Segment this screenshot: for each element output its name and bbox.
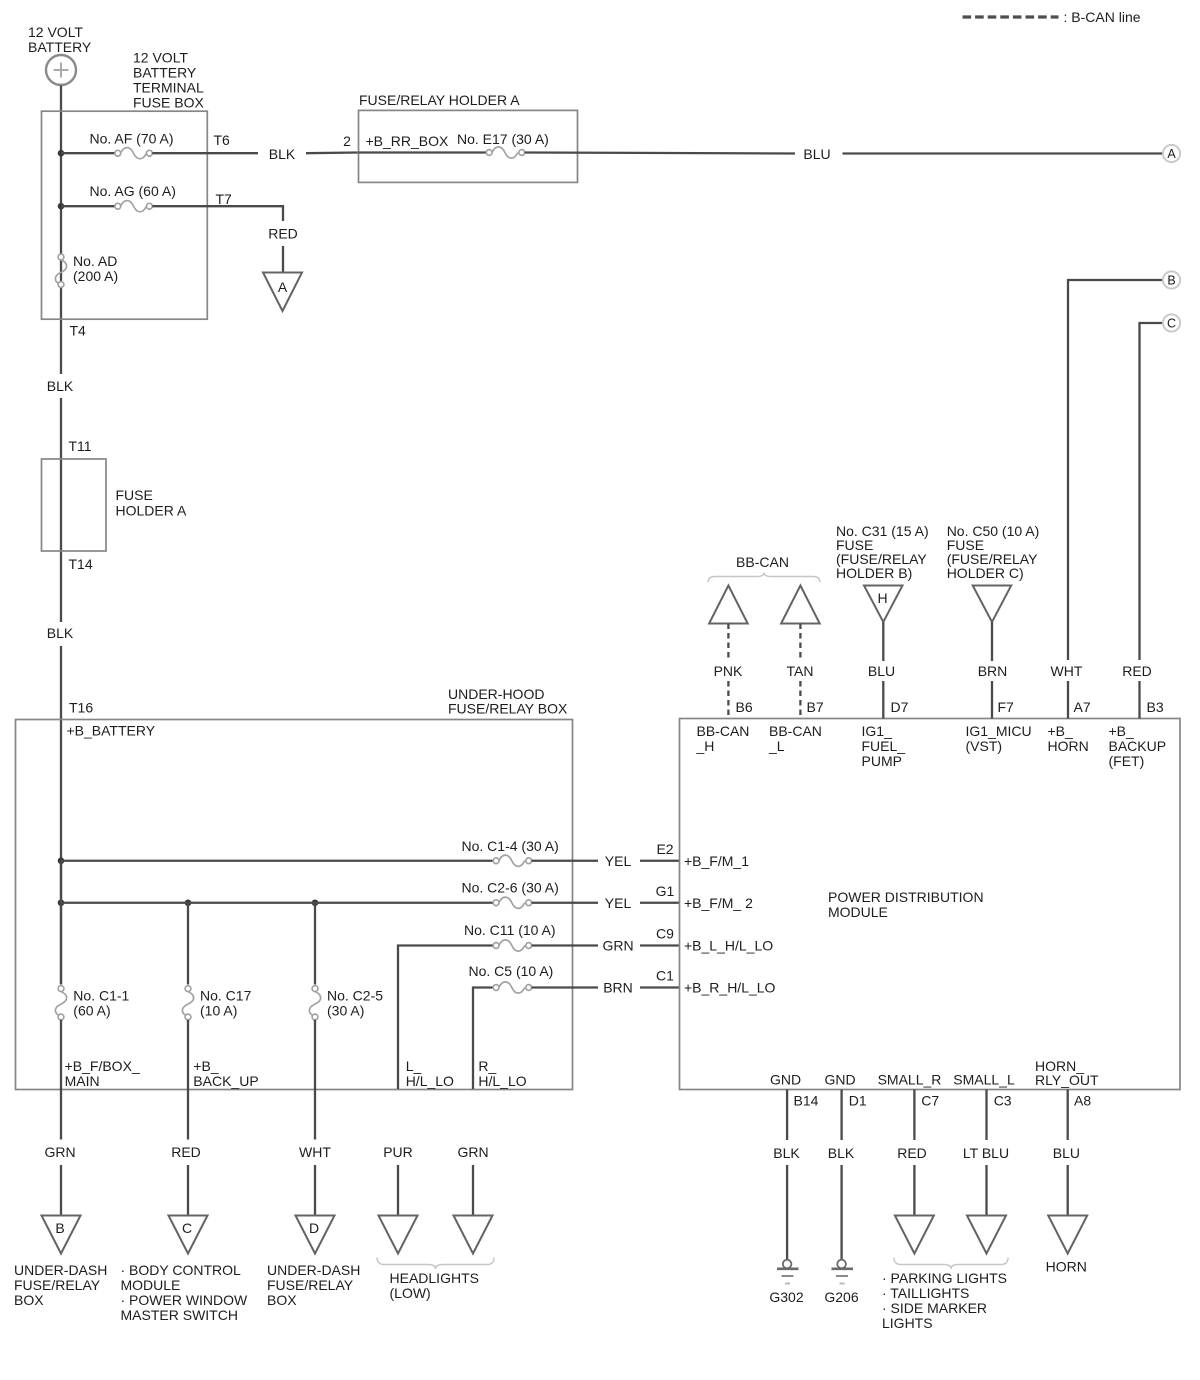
- fuse No. C2-6 (30 A): [462, 880, 559, 909]
- fuse/relay holder A box: [359, 110, 578, 182]
- wire 1 to fuse C1-4: [61, 860, 493, 862]
- svg-text:BATTERY: BATTERY: [28, 39, 92, 55]
- svg-text:T11: T11: [69, 438, 92, 454]
- node junction wire2 at main: [58, 899, 65, 906]
- svg-text:G302: G302: [769, 1289, 803, 1305]
- svg-text:BRN: BRN: [603, 980, 633, 996]
- arrow parking left: [967, 1216, 1006, 1254]
- svg-text:FUSE/RELAY HOLDER A: FUSE/RELAY HOLDER A: [359, 92, 520, 108]
- svg-text:RED: RED: [897, 1145, 927, 1161]
- wire YEL to PDM pin E2: [640, 860, 680, 862]
- svg-text:No. C17: No. C17: [200, 988, 252, 1004]
- fuse No. C5 (10 A): [469, 963, 554, 993]
- svg-text:HOLDER C): HOLDER C): [947, 565, 1024, 581]
- svg-text:C7: C7: [921, 1093, 939, 1109]
- legend dashed B-CAN line: [963, 15, 1059, 18]
- fuse holder A small box: [42, 459, 107, 551]
- svg-text:H/L_LO: H/L_LO: [478, 1073, 526, 1089]
- svg-text:T16: T16: [69, 700, 93, 716]
- wire BLU to circle A: [843, 152, 1164, 154]
- svg-text:R_: R_: [478, 1058, 496, 1074]
- wire SMALL_R C7: [913, 1090, 915, 1141]
- svg-text:G1: G1: [656, 883, 675, 899]
- connector circle A: [1163, 145, 1180, 162]
- svg-text:BLK: BLK: [47, 625, 74, 641]
- brace parking lights: [894, 1258, 1008, 1270]
- svg-text:D: D: [309, 1220, 319, 1236]
- wire below C2-5 to box bottom: [314, 1020, 316, 1140]
- svg-text:C3: C3: [994, 1093, 1012, 1109]
- svg-text:_H: _H: [696, 738, 715, 754]
- svg-text:GRN: GRN: [44, 1144, 75, 1160]
- svg-text:D7: D7: [891, 699, 909, 715]
- svg-text:RLY_OUT: RLY_OUT: [1035, 1072, 1099, 1088]
- svg-text:· POWER WINDOW: · POWER WINDOW: [121, 1292, 249, 1308]
- arrow parking right: [895, 1216, 934, 1254]
- 12 volt battery terminal fuse box: [42, 111, 208, 319]
- svg-text:B14: B14: [794, 1093, 819, 1109]
- fuse No. AD (200 A) vertical: [55, 253, 118, 287]
- wire SMALL_L C3: [985, 1090, 987, 1141]
- svg-text:+B_R_H/L_LO: +B_R_H/L_LO: [684, 980, 776, 996]
- wire fuse C2-6 out: [532, 902, 598, 904]
- headlight arrow left: [379, 1216, 418, 1254]
- svg-text:G206: G206: [824, 1289, 858, 1305]
- svg-text:C: C: [182, 1220, 192, 1236]
- svg-text:C1: C1: [656, 968, 674, 984]
- svg-text:No. AF (70 A): No. AF (70 A): [90, 131, 174, 147]
- svg-text:FUSE BOX: FUSE BOX: [133, 95, 204, 111]
- connector arrow D: [296, 1216, 335, 1254]
- wire to fuse AF: [61, 152, 115, 154]
- svg-text:FUSE/RELAY: FUSE/RELAY: [14, 1277, 101, 1293]
- svg-text:No. AG (60 A): No. AG (60 A): [90, 183, 176, 199]
- wire WHT to arrow D: [314, 1165, 316, 1216]
- svg-text:MODULE: MODULE: [828, 904, 888, 920]
- svg-text:HOLDER A: HOLDER A: [116, 503, 187, 519]
- svg-text:No. C1-4 (30 A): No. C1-4 (30 A): [462, 838, 559, 854]
- svg-text:BACK_UP: BACK_UP: [193, 1073, 258, 1089]
- wire segment below second BLK: [60, 646, 62, 985]
- svg-text:GRN: GRN: [457, 1144, 488, 1160]
- svg-text:A: A: [278, 279, 288, 295]
- fuse No. C17 (10 A) vertical: [182, 986, 251, 1020]
- svg-text:BLU: BLU: [868, 663, 895, 679]
- svg-text:IG1_MICU: IG1_MICU: [966, 723, 1032, 739]
- wire battery to fuse box vertical BLK: [60, 86, 62, 375]
- svg-text:+B_: +B_: [1048, 723, 1074, 739]
- svg-text:+B_F/BOX_: +B_F/BOX_: [65, 1058, 140, 1074]
- svg-text:12 VOLT: 12 VOLT: [133, 50, 188, 66]
- connector arrow A: [263, 273, 302, 312]
- fuse No. AF (70 A): [90, 131, 174, 159]
- fuse No. C1-1 (60 A) vertical: [55, 986, 129, 1020]
- svg-text:(FET): (FET): [1109, 753, 1145, 769]
- svg-text:FUSE: FUSE: [116, 487, 153, 503]
- wire RED to arrow C: [187, 1165, 189, 1216]
- svg-text:FUSE/RELAY BOX: FUSE/RELAY BOX: [448, 701, 568, 717]
- svg-text:+B_F/M_1: +B_F/M_1: [684, 853, 749, 869]
- svg-text:GND: GND: [770, 1072, 801, 1088]
- svg-text:+B_: +B_: [1109, 723, 1135, 739]
- wire GRN to arrow B: [60, 1165, 62, 1216]
- wire BRN to F7: [991, 622, 993, 661]
- svg-text:+B_: +B_: [193, 1058, 219, 1074]
- node junction wire2 at C17: [185, 899, 192, 906]
- svg-text:PUR: PUR: [383, 1144, 413, 1160]
- svg-text:B7: B7: [807, 699, 824, 715]
- wire below C17 to box bottom: [187, 1020, 189, 1140]
- svg-text:BLK: BLK: [269, 146, 296, 162]
- wire 2 to fuse C2-6: [61, 902, 493, 904]
- svg-text:E2: E2: [656, 841, 673, 857]
- brace headlights: [377, 1258, 494, 1270]
- svg-text:(LOW): (LOW): [390, 1285, 431, 1301]
- wire to circle B: [1068, 280, 1163, 660]
- svg-text:FUEL_: FUEL_: [862, 738, 906, 754]
- ground G302: [769, 1260, 803, 1305]
- svg-text:PUMP: PUMP: [862, 753, 902, 769]
- svg-text:RED: RED: [268, 226, 298, 242]
- svg-text:MASTER SWITCH: MASTER SWITCH: [121, 1307, 238, 1323]
- svg-text:B3: B3: [1147, 699, 1164, 715]
- svg-text:· SIDE MARKER: · SIDE MARKER: [882, 1300, 987, 1316]
- wire GND B14: [786, 1090, 788, 1141]
- svg-text:MAIN: MAIN: [65, 1073, 100, 1089]
- wire 4 corner to fuse C5: [473, 988, 493, 1090]
- wire GRN to PDM pin C9: [640, 944, 680, 946]
- dashed wire TAN: [799, 624, 801, 662]
- svg-text:C9: C9: [656, 926, 674, 942]
- svg-text:BRN: BRN: [978, 663, 1008, 679]
- svg-text:12 VOLT: 12 VOLT: [28, 24, 83, 40]
- svg-text:LIGHTS: LIGHTS: [882, 1315, 933, 1331]
- arrow horn: [1048, 1216, 1087, 1254]
- fuse No. C11 (10 A): [464, 922, 556, 951]
- svg-text:RED: RED: [171, 1144, 201, 1160]
- fuse No. C2-5 (30 A) vertical: [309, 986, 383, 1020]
- svg-text:2: 2: [343, 133, 351, 149]
- node junction B_F/M_1: [58, 857, 65, 864]
- node junction wire2 at C2-5: [312, 899, 319, 906]
- ground G206: [824, 1260, 858, 1305]
- svg-text:SMALL_L: SMALL_L: [953, 1072, 1015, 1088]
- svg-text:(60 A): (60 A): [73, 1003, 110, 1019]
- wire C2-5 branch vertical: [314, 903, 316, 985]
- node junction at fuse AG: [58, 203, 65, 210]
- wire 3 corner to fuse C11: [398, 946, 493, 1090]
- svg-text:(VST): (VST): [966, 738, 1003, 754]
- under-hood fuse/relay box: [16, 720, 573, 1090]
- wire segment below first BLK: [60, 398, 62, 622]
- connector circle C: [1163, 314, 1180, 331]
- brace BB-CAN: [708, 573, 820, 583]
- wire PUR to headlight arrow: [397, 1165, 399, 1216]
- svg-text:BOX: BOX: [14, 1292, 44, 1308]
- svg-text:B: B: [55, 1220, 64, 1236]
- svg-text:IG1_: IG1_: [862, 723, 893, 739]
- wire fuse C11 out: [532, 944, 598, 946]
- svg-text:FUSE/RELAY: FUSE/RELAY: [267, 1277, 354, 1293]
- wire RED to arrow A: [282, 246, 284, 273]
- svg-text:D1: D1: [849, 1093, 867, 1109]
- svg-text:WHT: WHT: [1051, 663, 1083, 679]
- dashed wire PNK: [727, 624, 729, 662]
- svg-text:+B_BATTERY: +B_BATTERY: [67, 723, 156, 739]
- svg-text:(30 A): (30 A): [327, 1003, 364, 1019]
- svg-text:+B_RR_BOX: +B_RR_BOX: [366, 133, 450, 149]
- svg-text:LT BLU: LT BLU: [963, 1145, 1009, 1161]
- svg-text:H: H: [877, 590, 887, 606]
- svg-text:BATTERY: BATTERY: [133, 65, 197, 81]
- svg-text:C: C: [1167, 317, 1176, 331]
- svg-text:POWER DISTRIBUTION: POWER DISTRIBUTION: [828, 889, 984, 905]
- svg-text:No. C1-1: No. C1-1: [73, 988, 129, 1004]
- svg-text:_L: _L: [768, 738, 785, 754]
- svg-text:· TAILLIGHTS: · TAILLIGHTS: [882, 1285, 969, 1301]
- svg-text:(200 A): (200 A): [73, 268, 118, 284]
- wire fuse C5 out: [532, 986, 598, 988]
- svg-text:L_: L_: [406, 1058, 422, 1074]
- svg-text:No. C2-5: No. C2-5: [327, 988, 383, 1004]
- svg-text:BB-CAN: BB-CAN: [697, 723, 750, 739]
- svg-text:UNDER-DASH: UNDER-DASH: [14, 1262, 107, 1278]
- wire fuse AG to T7 corner down: [152, 206, 283, 221]
- svg-text:MODULE: MODULE: [121, 1277, 181, 1293]
- wire fuse E17 out right: [525, 153, 795, 154]
- wire to circle C: [1140, 323, 1164, 660]
- node junction at fuse AF: [58, 150, 65, 157]
- svg-text:B: B: [1167, 274, 1175, 288]
- svg-text:T6: T6: [214, 132, 231, 148]
- svg-text:A7: A7: [1074, 699, 1091, 715]
- wire to fuse AG: [61, 205, 115, 207]
- wire GRN to headlight arrow: [472, 1165, 474, 1216]
- svg-text:· PARKING LIGHTS: · PARKING LIGHTS: [882, 1270, 1007, 1286]
- wire YEL to PDM pin G1: [640, 902, 680, 904]
- wire HORN A8: [1067, 1090, 1069, 1141]
- connector arrow H down: [864, 586, 903, 623]
- svg-text:BLK: BLK: [828, 1145, 855, 1161]
- connector arrow C: [169, 1216, 208, 1254]
- svg-text:T4: T4: [70, 323, 87, 339]
- BB-CAN arrow up H: [709, 586, 748, 624]
- svg-text:YEL: YEL: [605, 895, 632, 911]
- connector arrow B: [42, 1216, 81, 1254]
- fuse No. E17 (30 A): [486, 147, 524, 158]
- svg-text:: B-CAN line: : B-CAN line: [1064, 9, 1141, 25]
- svg-text:B6: B6: [736, 699, 753, 715]
- wire GND D1: [840, 1090, 842, 1141]
- svg-text:HEADLIGHTS: HEADLIGHTS: [390, 1270, 479, 1286]
- headlight arrow right: [454, 1216, 493, 1254]
- BB-CAN arrow up L: [781, 586, 820, 624]
- svg-text:T7: T7: [216, 191, 233, 207]
- wire fuse C1-4 out: [532, 860, 598, 862]
- svg-text:BLK: BLK: [773, 1145, 800, 1161]
- svg-text:TERMINAL: TERMINAL: [133, 80, 204, 96]
- svg-text:(10 A): (10 A): [200, 1003, 237, 1019]
- svg-text:BOX: BOX: [267, 1292, 297, 1308]
- svg-text:A: A: [1167, 147, 1176, 161]
- wire below C1-1 to box bottom: [60, 1020, 62, 1140]
- svg-text:WHT: WHT: [299, 1144, 331, 1160]
- battery B1 symbol: [46, 55, 76, 85]
- svg-text:HORN: HORN: [1046, 1259, 1087, 1275]
- wire BRN to PDM pin C1: [640, 986, 680, 988]
- svg-text:No. C5 (10 A): No. C5 (10 A): [469, 963, 554, 979]
- fuse No. AG (60 A): [90, 183, 176, 212]
- svg-text:BB-CAN: BB-CAN: [769, 723, 822, 739]
- svg-text:HORN: HORN: [1048, 738, 1089, 754]
- svg-text:GND: GND: [824, 1072, 855, 1088]
- fuse No. C1-4 (30 A): [462, 838, 559, 866]
- svg-text:UNDER-DASH: UNDER-DASH: [267, 1262, 360, 1278]
- svg-text:PNK: PNK: [714, 663, 743, 679]
- svg-text:No. E17 (30 A): No. E17 (30 A): [457, 131, 549, 147]
- svg-text:BLK: BLK: [47, 378, 74, 394]
- svg-text:No. C11 (10 A): No. C11 (10 A): [464, 922, 556, 938]
- svg-text:+B_L_H/L_LO: +B_L_H/L_LO: [684, 938, 773, 954]
- svg-text:BB-CAN: BB-CAN: [736, 554, 789, 570]
- svg-text:RED: RED: [1122, 663, 1152, 679]
- wire C17 branch vertical: [187, 903, 189, 985]
- connector circle B: [1163, 271, 1180, 288]
- wire inside holder A to fuse E17: [359, 151, 487, 153]
- svg-text:T14: T14: [69, 556, 93, 572]
- svg-text:BLU: BLU: [1053, 1145, 1080, 1161]
- svg-text:HOLDER B): HOLDER B): [836, 565, 912, 581]
- svg-text:No. AD: No. AD: [73, 253, 117, 269]
- svg-text:A8: A8: [1074, 1093, 1091, 1109]
- svg-text:BLU: BLU: [803, 146, 830, 162]
- svg-text:+B_F/M_ 2: +B_F/M_ 2: [684, 895, 753, 911]
- svg-text:TAN: TAN: [787, 663, 814, 679]
- wire BLU to D7: [882, 622, 884, 661]
- connector arrow down C50: [973, 586, 1012, 623]
- svg-text:H/L_LO: H/L_LO: [406, 1073, 454, 1089]
- svg-text:F7: F7: [998, 699, 1015, 715]
- power distribution module box: [680, 719, 1181, 1090]
- wire BLK to holder A: [306, 151, 359, 154]
- svg-text:BACKUP: BACKUP: [1109, 738, 1167, 754]
- svg-text:· BODY CONTROL: · BODY CONTROL: [121, 1262, 242, 1278]
- svg-text:GRN: GRN: [602, 938, 633, 954]
- svg-text:YEL: YEL: [605, 853, 632, 869]
- wire fuse AF to T6 and out: [152, 152, 258, 154]
- svg-text:SMALL_R: SMALL_R: [878, 1072, 942, 1088]
- wire main vertical above C1-1: [60, 861, 62, 985]
- svg-text:No. C2-6 (30 A): No. C2-6 (30 A): [462, 880, 559, 896]
